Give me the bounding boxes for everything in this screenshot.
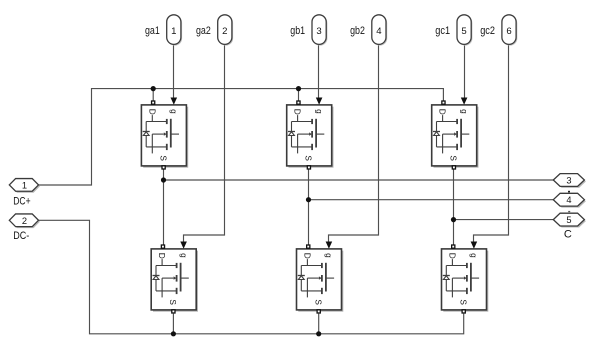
gate input port 1 oval	[167, 15, 182, 46]
wire drop to Q1 drain	[152, 89, 154, 101]
svg-text:gc2: gc2	[480, 25, 495, 37]
svg-text:DC-: DC-	[13, 230, 29, 242]
wire leg B vertical Q3 source to Q4 drain	[308, 167, 310, 245]
svg-text:2: 2	[22, 216, 27, 226]
junction dot bottom bus at Q4 source	[316, 331, 321, 336]
gate input port 6 oval	[502, 15, 517, 46]
gate input port 2 oval	[218, 15, 233, 46]
wire leg C vertical Q5 source to Q6 drain	[453, 167, 455, 245]
svg-text:gb2: gb2	[350, 25, 365, 37]
label A peek mark (hidden behind port 4)	[568, 191, 570, 193]
wire gate ga1 from oval 1 to Q1 gate arrow	[173, 44, 175, 98]
svg-text:6: 6	[506, 26, 511, 37]
gate input port 4 oval	[372, 15, 387, 46]
phase A output connection port 3 hexagon	[553, 174, 586, 188]
svg-text:4: 4	[376, 26, 382, 37]
MOSFET Q6 (phase C lower)	[442, 242, 489, 314]
svg-text:2: 2	[222, 26, 227, 37]
MOSFET Q2 (phase A lower)	[151, 242, 198, 314]
svg-text:5: 5	[461, 26, 466, 37]
svg-text:3: 3	[316, 26, 321, 37]
MOSFET Q1 (phase A upper)	[141, 98, 188, 170]
svg-text:5: 5	[566, 215, 571, 225]
junction dot node C	[451, 217, 456, 222]
wire gate ga2 from oval 2 to Q2 gate arrow	[184, 44, 225, 242]
phase B output connection port 4 hexagon	[553, 193, 586, 207]
svg-text:1: 1	[22, 180, 27, 190]
wire riser Q4 source to bottom bus	[318, 314, 320, 334]
svg-text:C: C	[564, 229, 572, 241]
junction dot top bus at Q1 drain	[151, 86, 156, 91]
svg-text:gc1: gc1	[435, 25, 450, 37]
svg-text:DC+: DC+	[13, 195, 30, 207]
svg-text:gb1: gb1	[290, 25, 305, 37]
gate input port 3 oval	[312, 15, 327, 46]
wire phase B output to port 4	[309, 199, 554, 201]
svg-text:ga2: ga2	[196, 25, 211, 37]
junction dot bottom bus at Q2 source	[171, 331, 176, 336]
phase C output connection port 5 hexagon	[553, 213, 586, 227]
wire DC+ net: port 1 to top bus feeding drains	[39, 89, 444, 185]
junction dot node A	[161, 177, 166, 182]
MOSFET Q5 (phase C upper)	[432, 98, 479, 170]
wire gate gc2 from oval 6 to Q6 gate arrow	[474, 44, 509, 242]
wire drop to Q3 drain	[298, 89, 300, 101]
label B peek mark (hidden behind port 5)	[568, 211, 570, 212]
wire phase C output to port 5	[454, 219, 554, 221]
junction dot node B	[306, 197, 311, 202]
wire gate gb2 from oval 4 to Q4 gate arrow	[329, 44, 379, 242]
svg-text:1: 1	[171, 26, 176, 37]
DC- input connection port 2 hexagon	[9, 214, 40, 228]
wire DC- net: port 2 to bottom bus collecting sources	[39, 220, 464, 333]
wire gate gb1 from oval 3 to Q3 gate arrow	[318, 44, 320, 98]
svg-text:4: 4	[566, 195, 571, 205]
svg-text:3: 3	[566, 176, 571, 186]
gate input port 5 oval	[457, 15, 472, 46]
wire gate gc1 from oval 5 to Q5 gate arrow	[464, 44, 466, 98]
MOSFET Q3 (phase B upper)	[287, 98, 334, 170]
DC+ input connection port 1 hexagon	[9, 179, 40, 193]
wire phase A output to port 3	[164, 179, 554, 181]
wire riser Q2 source to bottom bus	[172, 314, 174, 334]
wire leg A vertical Q1 source to Q2 drain	[163, 167, 165, 245]
MOSFET Q4 (phase B lower)	[297, 242, 344, 314]
junction dot top bus at Q3 drain	[296, 86, 301, 91]
svg-text:ga1: ga1	[145, 25, 160, 37]
